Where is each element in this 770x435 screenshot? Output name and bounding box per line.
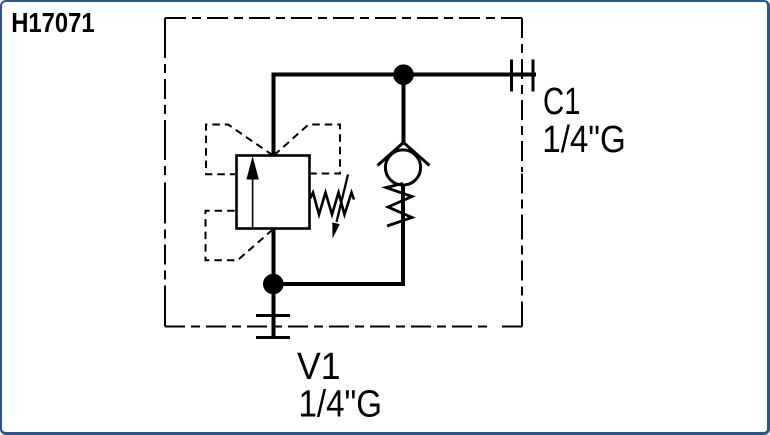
port V1 symbol (ticks) bbox=[256, 316, 290, 338]
svg-text:H17071: H17071 bbox=[11, 7, 95, 38]
check valve ball bbox=[385, 150, 420, 185]
relief valve pilot line bottom-left (dashed) bbox=[206, 211, 273, 260]
node: junction at bottom bbox=[263, 274, 284, 295]
relief valve body bbox=[237, 156, 310, 229]
relief valve pilot line top-right (dashed) bbox=[274, 125, 340, 174]
check valve spring bbox=[386, 184, 412, 227]
svg-text:C1: C1 bbox=[543, 81, 581, 123]
check valve seat bbox=[378, 143, 430, 166]
wire: valve bottom to bottom junction bbox=[272, 229, 276, 285]
wire: check valve outlet down and left to bottom junction bbox=[274, 184, 404, 284]
svg-text:1/4"G: 1/4"G bbox=[542, 119, 626, 161]
svg-text:1/4"G: 1/4"G bbox=[299, 384, 383, 426]
wire: bottom junction to port V1 bbox=[272, 284, 276, 339]
relief valve spring bbox=[310, 193, 354, 215]
relief valve adjustment arrow bbox=[337, 175, 349, 223]
port C1 symbol (ticks) bbox=[512, 60, 534, 92]
node: junction at top line bbox=[393, 64, 414, 85]
enclosure boundary (dash-dot manifold outline) bbox=[165, 18, 522, 327]
svg-text:V1: V1 bbox=[297, 346, 341, 388]
relief valve pilot line top-left (dashed) bbox=[206, 125, 273, 175]
relief valve flow arrow bbox=[252, 176, 254, 229]
wire: top line from valve riser to port C1 bbox=[274, 75, 537, 156]
wire: branch from junction down to check valve bbox=[402, 75, 406, 144]
